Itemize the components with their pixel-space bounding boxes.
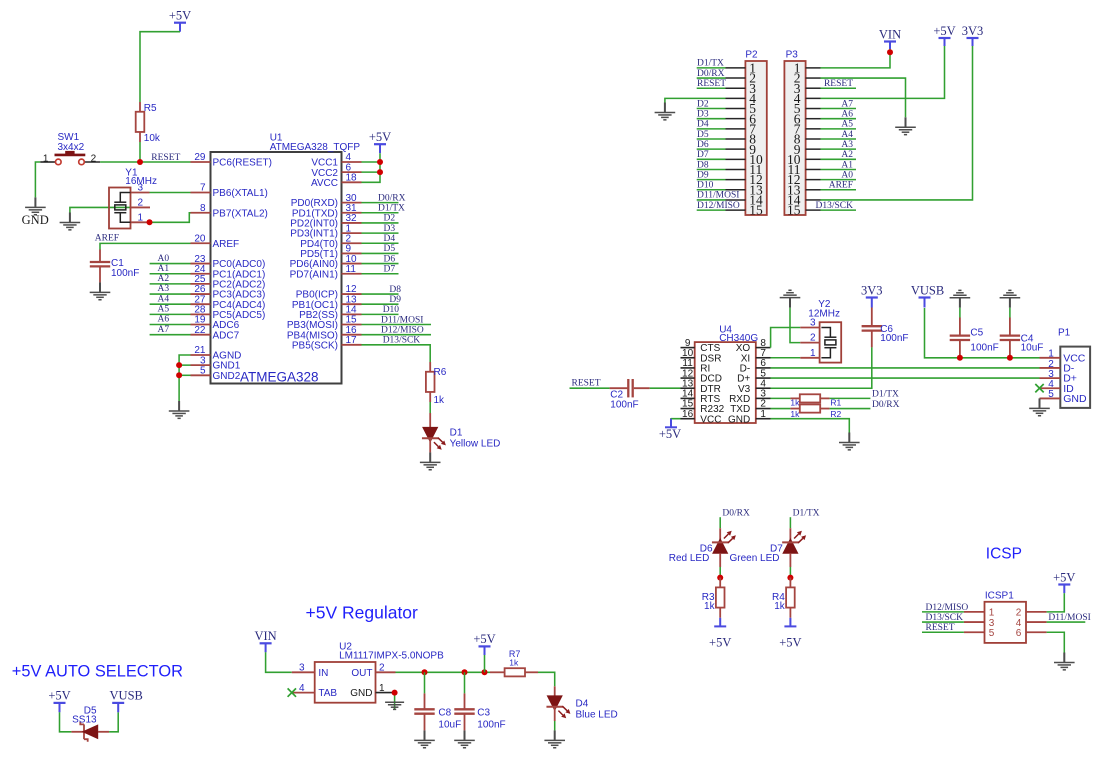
P2 pin 9	[726, 148, 746, 150]
wire P2 net D5	[697, 138, 726, 140]
wire P3 net RESET	[821, 87, 857, 89]
wire D- to P1 pin2	[771, 367, 1040, 369]
svg-text:PB5(SCK): PB5(SCK)	[292, 340, 338, 351]
ground (D1)	[420, 452, 441, 469]
resistor R7	[490, 671, 504, 673]
U1 pin 18 AVCC	[342, 181, 362, 183]
svg-text:+5V: +5V	[1053, 570, 1075, 584]
U1 pin 10 PD6(AIN0)	[342, 263, 362, 265]
wire D12/MISO to ICSP	[922, 611, 964, 613]
no-connect X (P1 ID)	[1035, 384, 1043, 392]
U1 pin 30 PD0(RXD)	[342, 202, 362, 204]
wire net D7	[362, 273, 399, 275]
U4 pin 9 CTS	[681, 347, 695, 349]
U1 pin 2 PD4(T0)	[342, 242, 362, 244]
wire RESET to C2	[570, 387, 610, 389]
svg-text:D13/SCK: D13/SCK	[383, 336, 421, 346]
wire SW1 pin1 to ground	[35, 162, 40, 197]
U1 pin 29 PC6(RESET)	[191, 161, 211, 163]
wire D6 to R3	[719, 567, 721, 578]
svg-text:D5: D5	[697, 130, 709, 140]
svg-text:ICSP: ICSP	[986, 546, 1022, 563]
wire U4 VCC to +5V	[671, 417, 681, 420]
svg-text:D10: D10	[383, 305, 400, 315]
U1 pin 25 PC2(ADC2)	[191, 283, 211, 285]
junction VCC1	[377, 159, 383, 165]
svg-text:VUSB: VUSB	[911, 283, 944, 297]
svg-text:A0: A0	[841, 170, 853, 180]
P2 pin 1	[726, 67, 746, 69]
wire VCC2	[362, 171, 381, 173]
svg-text:100nF: 100nF	[477, 719, 505, 730]
svg-text:P3: P3	[786, 50, 799, 61]
wire P2 net D9	[697, 179, 726, 181]
wire C6 to V3	[771, 347, 872, 388]
svg-text:SS13: SS13	[72, 715, 97, 726]
capacitor C6	[871, 308, 873, 327]
connector P2 body	[745, 61, 766, 215]
svg-text:A5: A5	[841, 120, 853, 130]
svg-text:D5: D5	[384, 244, 396, 254]
svg-text:D6: D6	[697, 140, 709, 150]
svg-text:D4: D4	[384, 234, 396, 244]
svg-text:+5V: +5V	[659, 427, 681, 441]
wire net D12/MISO	[362, 334, 432, 336]
wire +5V to R5	[140, 32, 180, 102]
U1 pin 8 PB7(XTAL2)	[191, 212, 211, 214]
svg-text:ATMEGA328: ATMEGA328	[240, 370, 319, 385]
LED D6	[719, 528, 721, 542]
svg-text:C3: C3	[477, 707, 490, 718]
wire D1/TX to D7	[789, 517, 791, 528]
svg-text:GND: GND	[350, 688, 372, 699]
wire A3	[150, 293, 191, 295]
svg-text:A1: A1	[841, 160, 853, 170]
ground (SW1)	[25, 197, 46, 214]
svg-text:D8: D8	[697, 160, 709, 170]
svg-text:D11/MOSI: D11/MOSI	[381, 315, 423, 325]
IC U4 CH340G body	[695, 342, 756, 423]
U2 pin 1 GND	[376, 692, 393, 694]
P1 pin 2 D-	[1040, 367, 1061, 369]
svg-text:RESET: RESET	[572, 378, 601, 388]
svg-text:1k: 1k	[790, 409, 800, 419]
wire A5	[150, 313, 191, 315]
svg-text:C5: C5	[970, 328, 983, 339]
wire P3 net D13/SCK	[821, 209, 857, 211]
wire P3 net AREF	[821, 189, 857, 191]
svg-text:D0/RX: D0/RX	[378, 193, 406, 203]
P2 pin 8	[726, 138, 746, 140]
resistor R5	[139, 102, 141, 112]
svg-text:15: 15	[749, 203, 763, 218]
wire P2 net RESET	[697, 87, 726, 89]
power 3V3 (C6)	[866, 298, 878, 308]
svg-text:D4: D4	[576, 699, 589, 710]
pushbutton SW1	[40, 161, 56, 163]
wire D7 to R4	[789, 567, 791, 578]
ground (C1)	[90, 282, 111, 299]
wire VIN to U2 IN	[266, 652, 292, 672]
P3 pin 5	[806, 108, 821, 110]
wire RXD to R1	[771, 397, 791, 399]
svg-text:D12/MISO: D12/MISO	[697, 201, 740, 211]
wire +5V to D5 cathode	[60, 712, 72, 732]
P1 pin 5 GND	[1040, 397, 1061, 399]
wire GND2	[179, 374, 190, 376]
P2 pin 10	[726, 158, 746, 160]
U1 pin 6 VCC2	[342, 171, 362, 173]
Y2 pin 3	[800, 327, 820, 329]
junction D6/R3	[717, 575, 723, 581]
svg-text:A0: A0	[158, 254, 170, 264]
svg-text:3V3: 3V3	[962, 24, 984, 38]
svg-text:+5V: +5V	[369, 130, 391, 144]
svg-text:A6: A6	[841, 109, 853, 119]
wire A4	[150, 303, 191, 305]
LED D1	[429, 413, 431, 427]
ground (C5)	[950, 290, 971, 307]
wire C2 to DTR	[650, 387, 681, 389]
svg-text:A6: A6	[158, 315, 170, 325]
svg-text:OUT: OUT	[351, 668, 372, 679]
wire ground to Y2 case pin	[790, 308, 800, 343]
svg-text:+5V: +5V	[709, 635, 731, 649]
U4 pin 15 R232	[681, 408, 695, 410]
P1 pin 1 VCC	[1040, 357, 1061, 359]
svg-text:GND: GND	[728, 414, 750, 425]
capacitor C5	[959, 308, 961, 318]
P2 pin 2	[726, 77, 746, 79]
svg-text:P1: P1	[1058, 328, 1071, 339]
svg-text:LM1117IMPX-5.0NOPB: LM1117IMPX-5.0NOPB	[339, 651, 444, 662]
junction GND2	[176, 372, 182, 378]
power VUSB	[919, 298, 931, 308]
power VIN (regulator)	[260, 643, 272, 652]
power +5V (U4) symbol	[665, 419, 677, 428]
wire P2 net D12/MISO	[697, 209, 726, 211]
power +5V (R3)	[714, 618, 726, 627]
svg-text:D8: D8	[389, 285, 401, 295]
U4 pin 2 TXD	[756, 408, 771, 410]
wire net D10	[362, 313, 399, 315]
svg-text:1: 1	[810, 348, 816, 359]
wire D+ to P1 pin3	[771, 377, 1040, 379]
wire net D2	[362, 222, 399, 224]
svg-text:D0/RX: D0/RX	[722, 509, 750, 519]
svg-text:AREF: AREF	[95, 233, 119, 243]
P3 pin 3	[806, 87, 821, 89]
U1 pin 26 PC3(ADC3)	[191, 293, 211, 295]
wire P2 net D6	[697, 148, 726, 150]
U1 pin 17 PB5(SCK)	[342, 344, 362, 346]
svg-text:18: 18	[346, 173, 358, 184]
P3 pin 4	[806, 97, 821, 99]
svg-text:D0/RX: D0/RX	[872, 400, 900, 410]
wire P3 net A6	[821, 118, 857, 120]
svg-text:3V3: 3V3	[861, 283, 883, 297]
Y2 pin 1	[800, 357, 820, 359]
svg-text:TAB: TAB	[318, 688, 337, 699]
wire P2 net D11/MOSI	[697, 199, 726, 201]
P2 pin 5	[726, 108, 746, 110]
svg-text:22: 22	[194, 325, 206, 336]
svg-text:16: 16	[682, 409, 694, 420]
U1 pin 16 PB4(MISO)	[342, 334, 362, 336]
svg-text:D1: D1	[450, 428, 463, 439]
wire P3 pin2 to ground	[821, 78, 906, 117]
U4 pin 6 D-	[756, 367, 771, 369]
wire XO to Y2 pin3	[771, 328, 801, 348]
wire 3V3 to P3 pin14	[821, 46, 973, 200]
svg-text:10uF: 10uF	[438, 719, 461, 730]
junction C3	[462, 669, 468, 675]
ground (D4)	[544, 730, 565, 747]
power +5V (regulator out)	[479, 646, 491, 655]
svg-text:GND2: GND2	[213, 371, 241, 382]
P2 pin 15	[726, 209, 746, 211]
wire +5V stem	[484, 655, 486, 672]
wire P3 net A2	[821, 158, 857, 160]
svg-text:7: 7	[200, 183, 206, 194]
svg-text:GND: GND	[22, 213, 49, 227]
wire Y1 pin1 to PB7(XTAL2)	[150, 213, 191, 223]
svg-text:5: 5	[989, 628, 995, 639]
svg-text:PB7(XTAL2): PB7(XTAL2)	[213, 208, 268, 219]
wire net D13/SCK to R6	[362, 345, 431, 362]
U1 pin 1 PD3(INT1)	[342, 232, 362, 234]
P2 pin 6	[726, 118, 746, 120]
wire A0	[150, 263, 191, 265]
wire P2 net D1/TX	[697, 67, 726, 69]
P3 pin 7	[806, 128, 821, 130]
svg-text:+5V: +5V	[48, 689, 70, 703]
wire VIN to P3 pin1	[821, 49, 891, 68]
wire P2 pin4 to ground	[665, 98, 726, 102]
svg-text:3: 3	[299, 663, 305, 674]
wire P3 net A5	[821, 128, 857, 130]
svg-text:3x4x2: 3x4x2	[58, 142, 85, 153]
junction VIN	[887, 49, 893, 55]
svg-text:2: 2	[137, 197, 143, 208]
U1 pin 9 PD5(T1)	[342, 252, 362, 254]
svg-text:+5V: +5V	[169, 9, 191, 23]
U1 pin 24 PC1(ADC1)	[191, 273, 211, 275]
P3 pin 13	[806, 189, 821, 191]
svg-text:15: 15	[787, 203, 801, 218]
P3 pin 1	[806, 67, 821, 69]
wire TXD to R2	[771, 408, 791, 410]
U2 pin 2 OUT	[376, 671, 396, 673]
svg-text:2: 2	[91, 153, 97, 164]
svg-text:11: 11	[346, 264, 357, 275]
ground (C4)	[1000, 290, 1021, 307]
wire SW1 pin2 to PC6(RESET)	[100, 161, 190, 163]
svg-text:8: 8	[200, 203, 206, 214]
P3 pin 12	[806, 179, 821, 181]
U1 pin 7 PB6(XTAL1)	[191, 191, 211, 193]
U4 pin 8 XO	[756, 347, 771, 349]
junction C4/VCC	[1007, 355, 1013, 361]
ground (P2 pin4)	[655, 103, 676, 120]
wire P2 net D3	[697, 118, 726, 120]
svg-text:2: 2	[810, 333, 816, 344]
svg-text:1: 1	[137, 212, 143, 223]
wire R2 to D0/RX	[830, 408, 871, 410]
U4 pin 4 V3	[756, 387, 771, 389]
svg-text:GND: GND	[1063, 393, 1087, 405]
ICSP1 pin 4	[1026, 621, 1047, 623]
svg-text:10uF: 10uF	[1021, 342, 1044, 353]
capacitor C4	[1009, 308, 1011, 318]
capacitor C8	[424, 672, 426, 693]
ground (Y2 case)	[780, 290, 801, 307]
wire VCC1	[362, 161, 381, 163]
svg-text:16MHz: 16MHz	[125, 176, 157, 187]
wire D0/RX to D6	[719, 517, 721, 528]
junction GND1	[176, 362, 182, 368]
svg-text:VIN: VIN	[879, 27, 901, 41]
svg-text:+5V AUTO SELECTOR: +5V AUTO SELECTOR	[12, 662, 183, 680]
svg-text:D11/MOSI: D11/MOSI	[697, 191, 739, 201]
U1 pin 31 PD1(TXD)	[342, 212, 362, 214]
svg-text:R2: R2	[830, 409, 841, 419]
svg-text:AREF: AREF	[829, 181, 853, 191]
U4 pin 13 DTR	[681, 387, 695, 389]
svg-text:Yellow LED: Yellow LED	[450, 439, 501, 450]
svg-text:D9: D9	[697, 170, 709, 180]
svg-text:6: 6	[1016, 628, 1022, 639]
svg-text:D2: D2	[384, 214, 396, 224]
U4 pin 10 DSR	[681, 357, 695, 359]
svg-text:100nF: 100nF	[970, 342, 998, 353]
ground (ICSP)	[1054, 653, 1075, 670]
wire R6 to D1	[429, 402, 431, 413]
wire AGND to ground	[179, 355, 190, 401]
U4 pin 7 XI	[756, 357, 771, 359]
wire net D1/TX	[362, 212, 399, 214]
wire OUT rail	[396, 671, 491, 673]
svg-text:A3: A3	[841, 140, 853, 150]
svg-text:AREF: AREF	[213, 239, 240, 250]
svg-text:D13/SCK: D13/SCK	[816, 201, 854, 211]
wire net D9	[362, 303, 399, 305]
U4 pin 14 RTS	[681, 397, 695, 399]
ground (Y1 case)	[60, 213, 81, 230]
svg-text:100nF: 100nF	[111, 268, 139, 279]
LED D4	[554, 686, 556, 696]
wire R1 to D1/TX	[830, 397, 871, 399]
LED D7	[789, 528, 791, 542]
junction C5/VCC	[957, 355, 963, 361]
U1 pin 5 GND2	[191, 374, 211, 376]
svg-text:AVCC: AVCC	[311, 178, 338, 189]
power VUSB (selector)	[112, 703, 124, 712]
wire P2 net D8	[697, 168, 726, 170]
wire P2 net D7	[697, 158, 726, 160]
svg-text:4: 4	[299, 683, 305, 694]
connector P1 body	[1060, 347, 1090, 408]
junction +5V out	[482, 669, 488, 675]
wire P3 net A4	[821, 138, 857, 140]
wire D5 anode to VUSB	[109, 712, 118, 732]
U4 pin 5 D+	[756, 377, 771, 379]
U1 pin 15 PB3(MOSI)	[342, 324, 362, 326]
svg-text:D7: D7	[384, 265, 396, 275]
svg-text:IN: IN	[318, 668, 328, 679]
P2 pin 12	[726, 179, 746, 181]
crystal Y1	[109, 188, 131, 229]
wire U2 GND to ground	[394, 693, 396, 710]
U1 pin 27 PC4(ADC4)	[191, 303, 211, 305]
svg-text:1: 1	[760, 409, 766, 420]
power 3V3 (P3 pin14)	[967, 38, 979, 46]
svg-text:A7: A7	[158, 325, 170, 335]
ICSP1 pin 5	[964, 631, 985, 633]
ICSP1 pin 2	[1026, 611, 1047, 613]
wire P3 net A7	[821, 108, 857, 110]
wire ICSP pin4 D11/MOSI	[1047, 621, 1086, 623]
svg-text:A5: A5	[158, 305, 170, 315]
P2 pin 13	[726, 189, 746, 191]
wire net D3	[362, 232, 399, 234]
wire ICSP pin6 to ground	[1047, 632, 1065, 652]
P2 pin 11	[726, 168, 746, 170]
svg-text:A4: A4	[158, 294, 170, 304]
svg-text:+5V: +5V	[933, 24, 955, 38]
svg-text:A1: A1	[158, 264, 170, 274]
svg-text:D3: D3	[384, 224, 396, 234]
svg-text:D9: D9	[389, 295, 401, 305]
svg-text:D10: D10	[697, 181, 714, 191]
wire Y1 pin3 to PB6(XTAL1)	[150, 192, 191, 194]
U4 pin 11 RI	[681, 367, 695, 369]
power +5V (R4)	[784, 618, 796, 627]
wire +5V to P3 pin4	[821, 46, 945, 98]
wire A1	[150, 273, 191, 275]
wire RESET to ICSP	[922, 631, 964, 633]
ground (U2 GND)	[385, 702, 404, 709]
U1 pin 32 PD2(INT0)	[342, 222, 362, 224]
svg-text:D1/TX: D1/TX	[793, 509, 820, 519]
svg-text:12MHz: 12MHz	[808, 309, 840, 320]
ICSP1 pin 3	[964, 621, 985, 623]
svg-text:1k: 1k	[774, 601, 786, 612]
wire R5 to RESET node	[139, 142, 141, 162]
svg-text:D3: D3	[697, 109, 709, 119]
U4 pin 3 RXD	[756, 397, 771, 399]
P2 pin 3	[726, 87, 746, 89]
power +5V (R5 pull-up)	[174, 23, 186, 32]
capacitor C1	[99, 250, 101, 263]
resistor R1	[790, 397, 799, 399]
junction Y1 pin1	[147, 219, 153, 225]
connector P3 body	[784, 61, 805, 215]
svg-text:+5V: +5V	[473, 632, 495, 646]
U4 pin 1 GND	[756, 418, 771, 420]
svg-text:PC6(RESET): PC6(RESET)	[213, 158, 272, 169]
svg-text:ADC7: ADC7	[213, 330, 240, 341]
connector ICSP1 body	[985, 602, 1027, 643]
wire A6	[150, 324, 191, 326]
U4 pin 16 VCC	[681, 418, 695, 420]
ground (P1 GND)	[1029, 398, 1050, 415]
P2 pin 7	[726, 128, 746, 130]
svg-text:ATMEGA328_TQFP: ATMEGA328_TQFP	[270, 142, 361, 153]
IC U2 LM1117 body	[315, 662, 376, 703]
svg-text:RESET: RESET	[151, 153, 180, 163]
svg-text:A7: A7	[841, 99, 853, 109]
